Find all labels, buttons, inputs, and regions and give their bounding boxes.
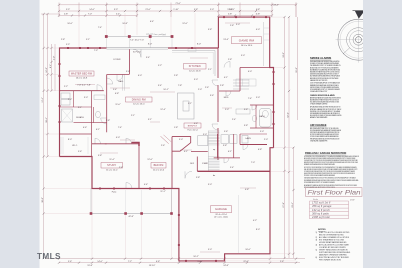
svg-text:2′-4″: 2′-4″ <box>232 119 236 121</box>
svg-text:8′-0″: 8′-0″ <box>197 44 201 46</box>
svg-text:9'-0 x 12'-4: 9'-0 x 12'-4 <box>187 129 198 131</box>
svg-text:NOTES: NOTES <box>318 229 326 231</box>
svg-text:5′-0″: 5′-0″ <box>225 109 229 111</box>
svg-text:21′-0″: 21′-0″ <box>145 9 151 11</box>
svg-text:13′-10″: 13′-10″ <box>149 265 156 267</box>
svg-text:BRKFST: BRKFST <box>188 125 198 127</box>
svg-text:5′-2″: 5′-2″ <box>158 65 162 67</box>
svg-text:GAME RM: GAME RM <box>239 38 255 42</box>
svg-text:5′-8″: 5′-8″ <box>228 14 232 16</box>
svg-text:2′-8″: 2′-8″ <box>174 75 178 77</box>
svg-text:3′-0″: 3′-0″ <box>236 24 240 26</box>
svg-text:STAIR: STAIR <box>202 162 208 165</box>
svg-text:First Floor Plan: First Floor Plan <box>308 190 362 197</box>
svg-text:9′-4″: 9′-4″ <box>146 57 150 59</box>
svg-text:23′-4″: 23′-4″ <box>292 202 294 208</box>
svg-text:11′-4″: 11′-4″ <box>109 159 114 161</box>
svg-text:22′-0″: 22′-0″ <box>243 261 249 263</box>
svg-text:19′-0″: 19′-0″ <box>296 67 298 73</box>
svg-text:7′-4″: 7′-4″ <box>98 27 102 29</box>
svg-text:6′-8″: 6′-8″ <box>115 93 119 95</box>
svg-text:4′-8″: 4′-8″ <box>245 189 249 191</box>
svg-text:2′-0″: 2′-0″ <box>198 89 202 91</box>
svg-text:ALL WALLS FRAMED W 2x4 STUDS: ALL WALLS FRAMED W 2x4 STUDS <box>319 236 350 239</box>
svg-text:M.BATH: M.BATH <box>76 116 84 119</box>
svg-text:AIR CHANGE: AIR CHANGE <box>310 123 327 127</box>
svg-text:4′-0″: 4′-0″ <box>256 29 260 31</box>
svg-text:12′-0″: 12′-0″ <box>147 159 153 161</box>
svg-text:5′-4″: 5′-4″ <box>230 167 234 169</box>
svg-text:HALL: HALL <box>118 80 124 83</box>
svg-text:STUDY: STUDY <box>107 164 116 167</box>
svg-text:1′-8″: 1′-8″ <box>174 127 178 129</box>
svg-text:12′-0″: 12′-0″ <box>182 23 188 25</box>
svg-text:14'-4 x 18'-0: 14'-4 x 18'-0 <box>241 45 253 47</box>
svg-text:2′-4″: 2′-4″ <box>119 167 123 169</box>
svg-text:2′-1″: 2′-1″ <box>131 115 135 117</box>
svg-text:5′-0″: 5′-0″ <box>260 131 264 133</box>
svg-text:4′-2″: 4′-2″ <box>253 220 257 222</box>
svg-text:6′-8″: 6′-8″ <box>258 149 262 151</box>
svg-text:8′-0″: 8′-0″ <box>148 44 152 46</box>
svg-text:OR ATTACHED GARAGE PER: OR ATTACHED GARAGE PER <box>310 139 328 142</box>
svg-text:6′-0″: 6′-0″ <box>248 71 252 73</box>
svg-text:7′-4″: 7′-4″ <box>118 127 122 129</box>
svg-text:8′-4″: 8′-4″ <box>50 64 52 68</box>
svg-text:2′-6″: 2′-6″ <box>205 87 209 89</box>
svg-text:5′-0″: 5′-0″ <box>256 97 260 99</box>
svg-text:71′-0″: 71′-0″ <box>175 3 181 5</box>
svg-text:3′-0″: 3′-0″ <box>208 184 212 186</box>
svg-text:W.I.C.: W.I.C. <box>72 145 78 147</box>
svg-text:2′-8″: 2′-8″ <box>220 85 224 87</box>
svg-text:12′-4″: 12′-4″ <box>160 109 166 111</box>
svg-text:2′-0″: 2′-0″ <box>264 139 268 141</box>
svg-text:11'-0 x 12'-0: 11'-0 x 12'-0 <box>153 169 165 171</box>
svg-text:3′-8″: 3′-8″ <box>244 125 248 127</box>
svg-text:6′-8″: 6′-8″ <box>256 9 260 11</box>
svg-text:3′-6″: 3′-6″ <box>210 95 214 97</box>
svg-text:27′-8″: 27′-8″ <box>283 202 285 208</box>
svg-text:OF EACH SEPARATE SLEEPING: OF EACH SEPARATE SLEEPING <box>310 103 328 106</box>
svg-text:2′-8″: 2′-8″ <box>61 39 65 41</box>
svg-text:7′-8″ 4′-1″ 7′-8″: 7′-8″ 4′-1″ 7′-8″ <box>77 85 91 87</box>
svg-text:10′-8″: 10′-8″ <box>122 23 128 25</box>
svg-text:132 sq ft porch: 132 sq ft porch <box>312 208 330 212</box>
svg-text:GARAGE PER SECTION R315: GARAGE PER SECTION R315 <box>310 79 327 82</box>
svg-text:4′-0″: 4′-0″ <box>116 137 120 139</box>
svg-text:9′-8″: 9′-8″ <box>98 155 102 157</box>
svg-text:KITCHEN: KITCHEN <box>189 65 201 68</box>
svg-text:6′-8″: 6′-8″ <box>156 261 160 263</box>
svg-text:3′-1″: 3′-1″ <box>148 119 152 121</box>
svg-text:12'-4 x 13'-0: 12'-4 x 13'-0 <box>133 103 145 105</box>
svg-text:2′-8″: 2′-8″ <box>228 59 232 61</box>
svg-text:11′-0″: 11′-0″ <box>115 104 120 106</box>
svg-text:DINING RM: DINING RM <box>132 98 146 101</box>
svg-text:5′-8″: 5′-8″ <box>256 14 260 16</box>
svg-text:4′-0″: 4′-0″ <box>54 56 56 60</box>
svg-text:5′-4″: 5′-4″ <box>113 89 117 91</box>
svg-text:13′-0″: 13′-0″ <box>227 9 233 11</box>
svg-text:12'-4 x 15'-8: 12'-4 x 15'-8 <box>189 70 201 72</box>
svg-text:14′-0″: 14′-0″ <box>89 9 95 11</box>
svg-text:2′-6″: 2′-6″ <box>161 145 165 147</box>
svg-text:3′-8″: 3′-8″ <box>244 109 248 111</box>
svg-text:3′-4″: 3′-4″ <box>158 85 162 87</box>
svg-text:1′-10″: 1′-10″ <box>173 9 179 11</box>
svg-text:7′-3″: 7′-3″ <box>94 50 98 52</box>
svg-text:9′-1″: 9′-1″ <box>188 103 192 105</box>
svg-text:FOYER: FOYER <box>114 59 121 61</box>
svg-text:456 sq ft garage: 456 sq ft garage <box>312 204 332 208</box>
svg-text:2′-8″: 2′-8″ <box>230 25 234 27</box>
svg-text:2′-8″: 2′-8″ <box>68 99 72 101</box>
svg-text:HOUSE WRAP BARRIER ADDED: HOUSE WRAP BARRIER ADDED <box>319 241 347 244</box>
svg-text:5′-4″: 5′-4″ <box>116 14 120 16</box>
svg-text:3′-0″: 3′-0″ <box>194 79 198 81</box>
svg-text:MASTER BED RM: MASTER BED RM <box>71 72 92 75</box>
svg-text:B. Porch: B. Porch <box>133 52 141 54</box>
svg-text:11′-1″: 11′-1″ <box>160 191 165 193</box>
svg-text:4′-1″: 4′-1″ <box>184 151 188 153</box>
svg-text:2188 sq ft total: 2188 sq ft total <box>311 215 330 219</box>
svg-text:3′-0″: 3′-0″ <box>203 134 207 136</box>
svg-text:5′-0″: 5′-0″ <box>210 9 214 11</box>
svg-text:2′-8″: 2′-8″ <box>64 14 68 16</box>
svg-text:16′-0″: 16′-0″ <box>245 249 251 251</box>
svg-text:74′-4″: 74′-4″ <box>42 97 44 103</box>
svg-text:6′-6″: 6′-6″ <box>83 127 87 129</box>
svg-text:368 sq ft patio: 368 sq ft patio <box>312 211 329 215</box>
svg-text:MASONRY OPENINGS VERIFIED: MASONRY OPENINGS VERIFIED <box>319 253 347 256</box>
svg-text:7′-2″: 7′-2″ <box>128 261 132 263</box>
svg-text:7′-0″: 7′-0″ <box>88 14 92 16</box>
svg-text:4′-1″: 4′-1″ <box>224 77 228 79</box>
svg-text:DWELLING / GARAGE SEPARATION: DWELLING / GARAGE SEPARATION <box>305 152 346 155</box>
svg-text:PER OWNER SELECTION: PER OWNER SELECTION <box>319 260 341 262</box>
svg-text:8′-0″: 8′-0″ <box>256 229 260 231</box>
svg-text:3′-1″: 3′-1″ <box>78 107 82 109</box>
svg-text:LAUN: LAUN <box>245 137 251 140</box>
svg-text:14′-0″: 14′-0″ <box>97 261 103 263</box>
svg-text:3/16″: 3/16″ <box>350 200 355 202</box>
svg-text:11'-4 x 12'-0: 11'-4 x 12'-0 <box>106 169 118 171</box>
svg-text:2′-1″: 2′-1″ <box>208 69 212 71</box>
svg-text:5′-10″: 5′-10″ <box>197 261 203 263</box>
svg-text:3′-9″: 3′-9″ <box>114 9 118 11</box>
svg-text:4′-4″: 4′-4″ <box>144 184 148 186</box>
svg-text:BED RM: BED RM <box>154 165 164 167</box>
svg-text:16′-2″: 16′-2″ <box>193 256 199 258</box>
svg-text:1′8″x1′8″ Conc. pad (typ): 1′8″x1′8″ Conc. pad (typ) <box>146 33 166 36</box>
svg-text:6′-4″: 6′-4″ <box>150 21 154 23</box>
svg-text:5′-5″: 5′-5″ <box>66 44 70 46</box>
svg-text:9′-0″: 9′-0″ <box>241 55 245 57</box>
svg-text:13′-4″: 13′-4″ <box>223 39 229 41</box>
svg-text:18′-4″: 18′-4″ <box>46 117 48 123</box>
svg-text:4′-6″: 4′-6″ <box>194 123 198 125</box>
svg-text:6′-1″: 6′-1″ <box>228 151 232 153</box>
svg-text:9′-0″: 9′-0″ <box>208 249 212 251</box>
svg-text:24′-0″: 24′-0″ <box>46 67 48 73</box>
svg-text:2′-8″: 2′-8″ <box>280 261 284 263</box>
svg-text:5′-8″: 5′-8″ <box>106 120 110 122</box>
svg-text:LOCATED BY BUILDER ONSITE: LOCATED BY BUILDER ONSITE <box>319 246 346 249</box>
svg-text:5′-6″: 5′-6″ <box>78 151 82 153</box>
svg-text:MUD: MUD <box>224 97 229 99</box>
svg-text:5′-0″: 5′-0″ <box>179 139 183 141</box>
svg-text:7′-0″: 7′-0″ <box>251 162 255 164</box>
svg-text:24′-8″: 24′-8″ <box>223 265 229 267</box>
svg-text:8′-0″: 8′-0″ <box>68 139 72 141</box>
svg-text:10′-1″: 10′-1″ <box>163 89 169 91</box>
svg-text:5′-1″: 5′-1″ <box>86 39 90 41</box>
svg-text:14 R: 14 R <box>190 163 195 165</box>
svg-text:ON EACH ADDITIONAL STORY: ON EACH ADDITIONAL STORY <box>310 90 328 93</box>
svg-text:30′-0″: 30′-0″ <box>42 197 44 203</box>
svg-text:42′-8″: 42′-8″ <box>128 216 134 218</box>
svg-text:3′-8″: 3′-8″ <box>223 145 227 147</box>
svg-text:7′-4″: 7′-4″ <box>248 98 252 100</box>
svg-text:6′-0″: 6′-0″ <box>138 75 142 77</box>
svg-text:TMLS: TMLS <box>37 252 61 261</box>
svg-text:19′-8″: 19′-8″ <box>87 265 93 267</box>
svg-text:6′-1″: 6′-1″ <box>96 129 100 131</box>
svg-text:AREA IN THE IMMEDIATE: AREA IN THE IMMEDIATE <box>310 116 328 119</box>
svg-text:3′-0″: 3′-0″ <box>84 97 88 99</box>
svg-text:9′-8″: 9′-8″ <box>194 9 198 11</box>
svg-text:SMOKE ALARMS: SMOKE ALARMS <box>310 56 331 60</box>
svg-text:GARAGE: GARAGE <box>215 207 227 211</box>
svg-text:5′-0″: 5′-0″ <box>126 71 130 73</box>
svg-text:7′-8″: 7′-8″ <box>178 85 182 87</box>
svg-text:2′-2″: 2′-2″ <box>64 86 68 88</box>
svg-text:1752 sq ft 1st fl: 1752 sq ft 1st fl <box>312 201 331 205</box>
svg-text:52′-0″: 52′-0″ <box>288 112 290 118</box>
svg-text:BATH: BATH <box>259 115 265 118</box>
svg-text:(4" conc. slab): (4" conc. slab) <box>214 217 228 219</box>
svg-text:16′-0″: 16′-0″ <box>67 23 73 25</box>
svg-text:5′-6″: 5′-6″ <box>68 261 72 263</box>
svg-text:5′-6″: 5′-6″ <box>224 131 228 133</box>
svg-text:24′-4″: 24′-4″ <box>273 5 279 7</box>
svg-text:31′-0″: 31′-0″ <box>283 52 285 58</box>
svg-text:5′-5″: 5′-5″ <box>66 9 70 11</box>
svg-text:5′-8″: 5′-8″ <box>196 177 200 179</box>
svg-text:7′-4″ 10′-0″ 7′-5″: 7′-4″ 10′-0″ 7′-5″ <box>130 40 144 42</box>
svg-text:16'-0 x 14'-8: 16'-0 x 14'-8 <box>76 77 88 79</box>
svg-text:9′-8″: 9′-8″ <box>208 29 212 31</box>
